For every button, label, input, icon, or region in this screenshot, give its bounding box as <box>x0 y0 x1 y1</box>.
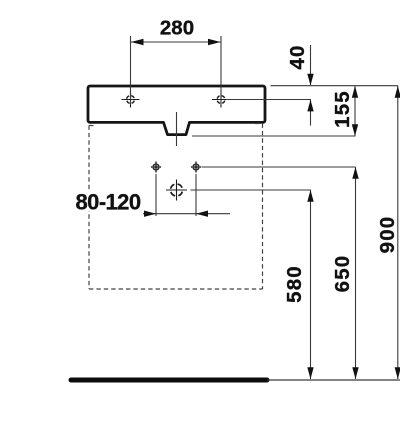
extension line faucet hole level <box>226 99 311 101</box>
drain centerline <box>176 112 178 146</box>
dimension 40 <box>286 44 314 125</box>
extension line from left wall hole down <box>155 174 157 216</box>
faucet hole left <box>122 92 140 108</box>
dimension 580 <box>283 190 314 379</box>
dashed siphon cover rectangle <box>89 124 263 290</box>
wall fixing hole right <box>191 162 201 173</box>
extension line drain bottom <box>192 135 356 137</box>
floor thick line <box>71 378 267 383</box>
dimension line 280 <box>131 41 222 43</box>
extension line right (280 dim) <box>220 36 222 105</box>
extension line left (280 dim) <box>130 36 132 105</box>
dimension line 80-120 <box>143 213 230 215</box>
extension line wall holes level <box>202 166 356 168</box>
floor thin extension line <box>267 379 400 381</box>
extension line drain circle level <box>191 189 312 191</box>
extension line basin top right <box>271 85 399 87</box>
svg-text:580: 580 <box>283 265 306 303</box>
faucet hole right <box>212 92 230 108</box>
svg-text:155: 155 <box>331 90 354 128</box>
dimension 155 <box>331 86 358 136</box>
svg-text:40: 40 <box>286 44 309 69</box>
drain outlet circle <box>166 180 187 201</box>
dimension 650 <box>331 167 359 379</box>
dimension 900 <box>376 86 400 379</box>
svg-text:280: 280 <box>160 17 194 40</box>
basin outline with drain notch <box>88 86 265 135</box>
extension line from right wall hole down <box>195 174 197 216</box>
wall fixing hole left <box>151 162 161 173</box>
svg-text:900: 900 <box>376 216 399 254</box>
svg-text:650: 650 <box>331 255 354 293</box>
label 80-120 backing <box>74 191 141 212</box>
svg-text:80-120: 80-120 <box>76 190 141 215</box>
